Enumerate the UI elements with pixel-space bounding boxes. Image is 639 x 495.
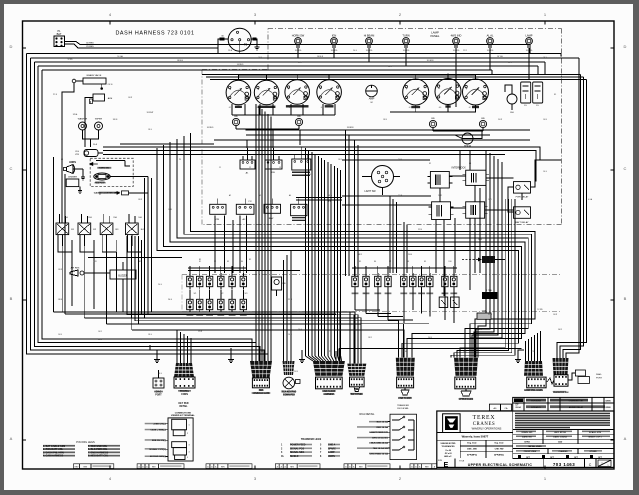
svg-text:IND: IND xyxy=(234,116,238,118)
svg-text:SW B: SW B xyxy=(113,119,118,121)
svg-text:K2: K2 xyxy=(429,163,431,165)
svg-text:RCA DETAIL: RCA DETAIL xyxy=(360,412,375,416)
svg-text:CL: CL xyxy=(281,456,285,458)
svg-text:CONNECTIONS: CONNECTIONS xyxy=(175,413,192,415)
svg-text:P8: P8 xyxy=(244,43,248,47)
svg-text:20 G: 20 G xyxy=(168,299,173,301)
svg-text:18 R: 18 R xyxy=(368,337,372,339)
svg-text:16 YEL: 16 YEL xyxy=(497,56,503,58)
svg-text:14 RED: 14 RED xyxy=(237,64,244,66)
svg-text:C3: C3 xyxy=(279,167,281,169)
svg-text:DWN: DWN xyxy=(606,407,611,409)
svg-text:18 B: 18 B xyxy=(383,119,387,121)
svg-text:B: B xyxy=(10,296,13,301)
svg-text:S3: S3 xyxy=(227,261,229,263)
svg-text:HTR: HTR xyxy=(215,219,220,221)
svg-text:G3: G3 xyxy=(289,107,291,109)
svg-text:R1A: R1A xyxy=(64,216,68,219)
svg-text:S8: S8 xyxy=(407,261,409,263)
svg-text:Hi BEAM: Hi BEAM xyxy=(364,33,375,37)
svg-text:10 R: 10 R xyxy=(558,329,563,331)
svg-text:18 WHT: 18 WHT xyxy=(147,112,155,114)
svg-text:DASH HARNESS 723 0101: DASH HARNESS 723 0101 xyxy=(115,31,194,37)
svg-text:TITLE: TITLE xyxy=(459,460,465,462)
svg-text:IND: IND xyxy=(431,118,435,120)
svg-text:20 B: 20 B xyxy=(294,371,298,373)
svg-text:A: A xyxy=(215,466,217,469)
svg-text:WASHER: WASHER xyxy=(78,118,88,121)
svg-text:30 A: 30 A xyxy=(93,143,98,146)
svg-text:D: D xyxy=(10,44,13,49)
svg-text:CHKD: CHKD xyxy=(524,441,530,443)
svg-text:ANG ±1°: ANG ±1° xyxy=(444,455,452,458)
svg-text:S10: S10 xyxy=(448,261,451,263)
svg-text:RH: RH xyxy=(510,112,514,114)
svg-text:A2: A2 xyxy=(229,194,231,197)
svg-text:20 R: 20 R xyxy=(438,195,442,197)
svg-text:4 GA: 4 GA xyxy=(588,198,593,201)
svg-text:A: A xyxy=(411,466,413,469)
svg-text:18 W: 18 W xyxy=(58,299,63,301)
svg-text:S4: S4 xyxy=(241,261,243,263)
svg-text:18 G: 18 G xyxy=(328,195,332,197)
svg-text:A: A xyxy=(624,436,627,441)
svg-text:16 G: 16 G xyxy=(478,239,483,241)
svg-text:Waverly, Iowa 50677: Waverly, Iowa 50677 xyxy=(462,434,489,438)
svg-text:R2A: R2A xyxy=(88,216,92,219)
svg-text:P1 B: P1 B xyxy=(53,94,58,96)
svg-text:SW A: SW A xyxy=(73,113,78,116)
svg-text:R4: R4 xyxy=(141,229,145,231)
svg-text:16 G: 16 G xyxy=(508,62,512,64)
svg-text:R1: R1 xyxy=(71,229,75,231)
svg-text:A: A xyxy=(281,466,283,469)
svg-text:S2: S2 xyxy=(249,259,251,261)
svg-text:P11: P11 xyxy=(463,351,466,353)
svg-text:APP(MFG): APP(MFG) xyxy=(467,454,477,457)
svg-text:UPPER ELECTRICAL SCHEMATIC: UPPER ELECTRICAL SCHEMATIC xyxy=(468,463,533,467)
svg-text:D: D xyxy=(624,44,627,49)
svg-text:INTERLOCK: INTERLOCK xyxy=(452,167,467,170)
svg-text:Eng. Date: Eng. Date xyxy=(467,442,477,445)
svg-text:HORN: HORN xyxy=(69,162,76,164)
svg-text:18 G: 18 G xyxy=(148,334,152,336)
svg-text:A: A xyxy=(353,466,355,469)
svg-text:C4: C4 xyxy=(309,174,311,176)
svg-text:P12: P12 xyxy=(248,201,251,203)
svg-text:GRN: GRN xyxy=(482,311,487,313)
svg-text:LIGHT SW: LIGHT SW xyxy=(364,191,376,193)
svg-text:S2: S2 xyxy=(214,261,216,263)
svg-text:22 B: 22 B xyxy=(418,229,423,231)
svg-text:5: 5 xyxy=(187,457,188,459)
svg-text:A4: A4 xyxy=(289,194,291,197)
svg-text:12 RD: 12 RD xyxy=(537,309,543,311)
svg-text:18 G: 18 G xyxy=(148,129,152,131)
svg-text:BUZZER: BUZZER xyxy=(118,276,128,278)
svg-text:8: 8 xyxy=(320,456,322,458)
svg-text:+: + xyxy=(320,87,322,91)
svg-text:KEY PAD: KEY PAD xyxy=(179,402,189,405)
svg-text:16 RED: 16 RED xyxy=(207,127,214,129)
svg-text:S6: S6 xyxy=(374,261,376,263)
svg-text:AS: AS xyxy=(494,407,497,410)
svg-text:TRANSFER LEGS: TRANSFER LEGS xyxy=(301,438,322,441)
svg-text:4: 4 xyxy=(109,12,112,17)
svg-text:+: + xyxy=(257,88,259,92)
svg-text:5: 5 xyxy=(320,445,322,447)
svg-text:+: + xyxy=(229,88,231,92)
svg-text:DETAIL: DETAIL xyxy=(179,405,188,408)
svg-text:G5: G5 xyxy=(409,107,411,109)
svg-text:3: 3 xyxy=(188,445,189,447)
svg-text:IND: IND xyxy=(481,118,485,120)
svg-text:VIEWED AT TERMINAL: VIEWED AT TERMINAL xyxy=(171,414,195,417)
svg-text:P9: P9 xyxy=(329,351,331,353)
svg-text:16 G: 16 G xyxy=(543,171,547,173)
svg-text:A: A xyxy=(415,466,417,469)
svg-text:ALM: ALM xyxy=(108,97,113,100)
svg-text:1: 1 xyxy=(188,425,189,427)
svg-text:12 RD: 12 RD xyxy=(67,59,73,61)
svg-text:A: A xyxy=(139,466,141,469)
svg-text:P7: P7 xyxy=(261,351,263,353)
svg-text:PORT: PORT xyxy=(596,378,603,380)
svg-text:G7: G7 xyxy=(469,107,471,109)
svg-text:S7: S7 xyxy=(389,261,391,263)
svg-text:M: M xyxy=(371,102,373,104)
svg-text:R3A: R3A xyxy=(113,216,117,219)
svg-text:F2: F2 xyxy=(99,194,101,196)
svg-text:C: C xyxy=(589,463,592,467)
svg-text:P14: P14 xyxy=(328,201,331,203)
svg-text:Sup. Date: Sup. Date xyxy=(494,442,504,445)
svg-text:18 G: 18 G xyxy=(158,373,162,375)
svg-text:G2: G2 xyxy=(257,107,259,109)
svg-text:UNLESS NOTED: UNLESS NOTED xyxy=(441,443,456,445)
svg-text:BRAKE VALVE: BRAKE VALVE xyxy=(87,74,102,77)
svg-text:16 B: 16 B xyxy=(543,119,547,121)
svg-text:4: 4 xyxy=(188,451,189,453)
svg-text:PORT: PORT xyxy=(155,395,162,397)
svg-text:18 BLU: 18 BLU xyxy=(177,60,184,62)
svg-text:W1: W1 xyxy=(194,293,197,295)
svg-text:DIAG: DIAG xyxy=(596,373,602,376)
svg-text:A: A xyxy=(345,466,347,469)
svg-text:18 R: 18 R xyxy=(358,254,363,256)
svg-text:16 Y: 16 Y xyxy=(488,199,492,201)
svg-text:A3: A3 xyxy=(259,194,261,197)
svg-text:29 RED: 29 RED xyxy=(86,46,94,48)
svg-text:4: 4 xyxy=(109,476,112,481)
svg-text:SIZE: SIZE xyxy=(438,460,443,462)
svg-text:3: 3 xyxy=(281,452,283,454)
svg-text:DES: JMS: DES: JMS xyxy=(467,449,477,451)
svg-text:APP(ENG): APP(ENG) xyxy=(494,454,504,457)
svg-text:14 B: 14 B xyxy=(58,334,62,336)
svg-text:16 B: 16 B xyxy=(168,209,172,211)
svg-text:16 W: 16 W xyxy=(128,97,132,99)
svg-text:P12: P12 xyxy=(531,351,534,353)
svg-text:HOUR: HOUR xyxy=(464,145,471,148)
svg-text:DWN: DWN xyxy=(606,400,611,402)
svg-text:18 BRN: 18 BRN xyxy=(347,127,354,129)
svg-text:FL: FL xyxy=(536,105,539,107)
svg-text:1: 1 xyxy=(281,445,283,447)
svg-text:AL AL: AL AL xyxy=(487,33,494,37)
svg-text:3: 3 xyxy=(254,476,257,481)
svg-text:16 W: 16 W xyxy=(553,314,557,316)
svg-text:IGN: IGN xyxy=(332,33,337,37)
svg-text:16 B: 16 B xyxy=(288,334,292,336)
svg-text:6: 6 xyxy=(320,448,322,450)
svg-text:703 1463: 703 1463 xyxy=(553,462,575,467)
svg-text:30: 30 xyxy=(221,36,224,38)
svg-text:P10: P10 xyxy=(403,351,406,353)
svg-text:18 GRN: 18 GRN xyxy=(427,60,434,62)
svg-text:TOLERANCES: TOLERANCES xyxy=(442,445,456,448)
svg-text:18 R: 18 R xyxy=(338,159,342,161)
svg-text:+: + xyxy=(438,87,440,91)
svg-text:22 W: 22 W xyxy=(398,195,402,197)
svg-text:7: 7 xyxy=(320,452,322,454)
svg-text:B: B xyxy=(624,296,627,301)
svg-text:K5: K5 xyxy=(554,94,556,96)
svg-text:A: A xyxy=(211,466,213,469)
svg-text:A: A xyxy=(434,466,436,469)
svg-text:CA: CA xyxy=(504,407,508,410)
svg-text:20 G: 20 G xyxy=(353,50,357,52)
svg-text:G6: G6 xyxy=(439,107,441,109)
svg-text:S9: S9 xyxy=(424,261,426,263)
svg-text:A: A xyxy=(419,466,421,469)
svg-text:PANEL: PANEL xyxy=(431,34,440,38)
svg-text:+: + xyxy=(406,87,408,91)
svg-text:AC: AC xyxy=(242,218,245,221)
svg-text:A: A xyxy=(146,466,148,469)
svg-text:S1: S1 xyxy=(199,261,201,263)
svg-text:DIMMER: DIMMER xyxy=(68,177,77,179)
svg-text:CHK: RW: CHK: RW xyxy=(495,449,504,451)
svg-text:SW: SW xyxy=(271,172,275,174)
svg-text:3: 3 xyxy=(254,12,257,17)
svg-text:18 W: 18 W xyxy=(58,269,62,271)
svg-text:A: A xyxy=(277,466,279,469)
svg-text:4WS IND: 4WS IND xyxy=(451,33,462,37)
svg-text:16 R: 16 R xyxy=(98,331,102,333)
svg-text:TURN: TURN xyxy=(402,33,409,37)
svg-text:P3: P3 xyxy=(179,159,181,161)
svg-text:BATT RELAY: BATT RELAY xyxy=(515,221,529,224)
svg-text:1 TRE: 1 TRE xyxy=(486,290,492,292)
svg-text:TRANSFER: TRANSFER xyxy=(397,404,409,407)
svg-text:R4A: R4A xyxy=(138,216,142,219)
svg-text:22 R: 22 R xyxy=(463,50,467,52)
svg-text:WAVERLY OPERATIONS: WAVERLY OPERATIONS xyxy=(472,427,502,431)
svg-text:12 W: 12 W xyxy=(198,331,202,333)
svg-text:22 R: 22 R xyxy=(288,299,293,301)
svg-text:2: 2 xyxy=(399,12,402,17)
svg-text:+: + xyxy=(466,87,468,91)
svg-text:A1: A1 xyxy=(246,172,249,175)
svg-text:PB: PB xyxy=(283,283,286,285)
svg-text:CRANES: CRANES xyxy=(473,422,496,427)
svg-text:14 G: 14 G xyxy=(298,329,303,331)
svg-text:.X ±.06: .X ±.06 xyxy=(445,450,451,452)
svg-text:2: 2 xyxy=(187,433,188,435)
svg-text:P/N OWL LEGS: P/N OWL LEGS xyxy=(76,440,95,444)
svg-text:K3: K3 xyxy=(469,163,471,165)
svg-text:A: A xyxy=(142,466,144,469)
svg-text:WIPER: WIPER xyxy=(95,119,103,121)
svg-text:1: 1 xyxy=(544,12,547,17)
svg-text:A: A xyxy=(207,466,209,469)
svg-text:S5: S5 xyxy=(359,261,361,263)
svg-text:C: C xyxy=(624,166,627,171)
svg-text:A: A xyxy=(349,466,351,469)
svg-text:18 W: 18 W xyxy=(410,371,414,373)
svg-text:LTR: LTR xyxy=(75,154,79,156)
svg-text:1: 1 xyxy=(544,476,547,481)
svg-text:W3: W3 xyxy=(245,293,248,295)
svg-text:G1: G1 xyxy=(229,107,231,109)
svg-text:2: 2 xyxy=(281,448,283,450)
svg-text:16 BLK: 16 BLK xyxy=(317,56,324,58)
svg-text:TEREX: TEREX xyxy=(473,415,496,421)
svg-text:C: C xyxy=(10,166,13,171)
svg-text:+: + xyxy=(288,87,290,91)
svg-text:2: 2 xyxy=(399,476,402,481)
svg-text:CONN: CONN xyxy=(181,394,188,396)
svg-text:30 RED: 30 RED xyxy=(86,43,94,45)
svg-text:A: A xyxy=(10,436,13,441)
svg-text:.XX ±.03: .XX ±.03 xyxy=(444,453,451,455)
svg-text:AMP: AMP xyxy=(369,97,375,101)
svg-text:LAMP: LAMP xyxy=(525,33,532,37)
svg-text:20 B: 20 B xyxy=(408,254,413,256)
svg-text:G4: G4 xyxy=(321,107,323,109)
svg-text:P8 A: P8 A xyxy=(228,49,233,52)
svg-text:SW DETAIL: SW DETAIL xyxy=(397,407,409,410)
svg-text:22 G: 22 G xyxy=(488,314,492,316)
svg-text:CIG: CIG xyxy=(75,151,79,153)
svg-text:HORN SW: HORN SW xyxy=(292,33,305,37)
svg-text:18 W: 18 W xyxy=(138,199,142,201)
svg-text:18 W: 18 W xyxy=(298,62,302,64)
svg-text:W2: W2 xyxy=(221,293,224,295)
svg-text:C2: C2 xyxy=(249,167,251,169)
svg-text:H1: H1 xyxy=(61,159,63,161)
svg-text:20 W: 20 W xyxy=(498,119,502,121)
svg-text:AIR: AIR xyxy=(94,260,98,263)
svg-text:CAD: CAD xyxy=(558,440,563,443)
svg-text:A: A xyxy=(285,466,287,469)
svg-text:CB 30: CB 30 xyxy=(108,84,113,86)
svg-text:20 G: 20 G xyxy=(158,284,162,286)
svg-text:R3: R3 xyxy=(116,229,120,231)
svg-text:FL: FL xyxy=(524,105,527,107)
svg-text:E: E xyxy=(444,460,449,469)
svg-text:IND: IND xyxy=(297,116,301,118)
svg-text:16 GA: 16 GA xyxy=(117,55,123,58)
svg-text:R2: R2 xyxy=(93,229,97,231)
svg-text:AIR RES: AIR RES xyxy=(71,267,80,270)
svg-text:C1: C1 xyxy=(219,167,221,169)
